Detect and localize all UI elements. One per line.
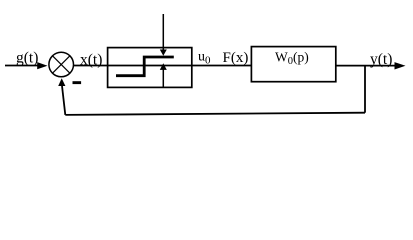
label F(x): [223, 50, 249, 66]
feedback wire: right vertical drop: [364, 66, 366, 113]
minus sign at feedback input: [73, 81, 82, 84]
wire: input g(t) line: [5, 65, 39, 67]
wire: between blocks: [192, 65, 252, 67]
label g(t): [16, 50, 38, 67]
wire: output y(t): [336, 65, 396, 67]
summing junction (comparator circle with X): [49, 52, 74, 77]
relay characteristic (thick step line): [116, 57, 174, 76]
label W0(p): [275, 50, 309, 67]
output arrowhead: [395, 62, 406, 69]
label u0: [198, 50, 211, 67]
wire: x(t) from circle through relay block (axis line): [74, 65, 192, 67]
label x(t): [80, 52, 102, 69]
arrowhead into summing junction: [37, 62, 47, 69]
block W0(p): [251, 47, 335, 82]
feedback wire: left riser to summing junction: [62, 86, 65, 115]
svg-text:F(x): F(x): [223, 50, 249, 66]
svg-text:g(t): g(t): [16, 50, 38, 67]
block N1: relay nonlinearity rectangle: [108, 48, 192, 88]
svg-text:y(t): y(t): [370, 51, 392, 68]
feedback wire: bottom horizontal: [65, 113, 365, 115]
feedback arrowhead into circle: [58, 78, 65, 86]
label y(t): [370, 51, 392, 68]
down arrow into characteristic: [160, 14, 167, 56]
up arrow inside block: [160, 63, 167, 87]
